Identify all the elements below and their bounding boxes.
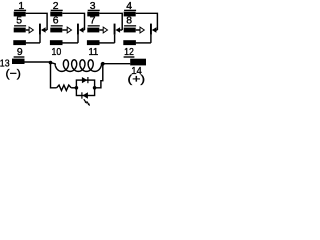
terminal 12 underline xyxy=(124,56,135,57)
contact bar pole 2 xyxy=(77,24,79,35)
NO contact open arrow pole 4 xyxy=(136,29,140,31)
terminal 12 pad xyxy=(123,40,136,45)
junction node B (coil right) xyxy=(101,62,105,66)
wire node B to 14 xyxy=(103,63,130,65)
wire NC 1 to contact xyxy=(26,13,47,30)
svg-text:(−): (−) xyxy=(6,68,22,80)
wire COM 9 xyxy=(26,42,40,44)
terminal 4 underline xyxy=(124,10,136,11)
LED emission arrow 2 xyxy=(87,102,89,105)
terminal 9 underline xyxy=(14,56,25,57)
svg-text:10: 10 xyxy=(52,47,62,58)
terminal 7 pad xyxy=(87,28,99,33)
wire 13 to coil node xyxy=(25,61,51,63)
wire bar to COM pole 3 xyxy=(114,35,116,43)
wire box to node B xyxy=(95,64,103,88)
wire bar to COM pole 1 xyxy=(39,35,41,43)
NO contact open arrow pole 2 xyxy=(62,29,67,31)
junction node D (box right) xyxy=(93,86,97,90)
terminal 11 pad xyxy=(87,40,100,45)
svg-text:11: 11 xyxy=(89,47,99,58)
NC contact arrow pole 1 xyxy=(44,29,47,31)
NO contact open arrow pole 1 xyxy=(26,29,29,31)
terminal 9 pad xyxy=(13,40,26,45)
terminal 8 underline xyxy=(124,25,136,26)
svg-text:7: 7 xyxy=(90,16,96,27)
NC contact arrow pole 3 xyxy=(119,29,122,31)
svg-text:8: 8 xyxy=(126,16,132,27)
terminal 1 underline xyxy=(14,10,26,11)
terminal 7 underline xyxy=(88,25,100,26)
terminal 2 pad xyxy=(50,12,62,17)
wire NC 4 to contact xyxy=(136,13,158,30)
LED emission arrow 1 xyxy=(84,99,86,102)
terminal 3 underline xyxy=(88,10,100,11)
contact bar pole 1 xyxy=(39,24,41,35)
wire NC 2 to contact xyxy=(62,13,84,30)
terminal 6 underline xyxy=(51,25,63,26)
contact bar pole 4 xyxy=(150,24,152,35)
wire COM 11 xyxy=(99,42,114,44)
NO contact open arrow pole 3 xyxy=(99,29,103,31)
resistor R (indicator series resistor) xyxy=(57,85,72,90)
svg-text:(+): (+) xyxy=(128,73,146,85)
terminal 3 pad xyxy=(87,12,99,17)
coil (relay coil loops) xyxy=(51,60,103,72)
wire COM 10 xyxy=(62,42,78,44)
terminal 13 pad xyxy=(12,59,25,64)
svg-text:5: 5 xyxy=(16,16,22,27)
NC contact arrow pole 4 xyxy=(155,29,157,31)
diode D1 (top, protection) xyxy=(82,77,87,83)
terminal 2 underline xyxy=(51,10,63,11)
wire node A down xyxy=(51,63,57,88)
diode box outline xyxy=(76,80,94,95)
terminal 5 pad xyxy=(14,28,26,33)
terminal 1 pad xyxy=(14,12,26,17)
terminal 8 pad xyxy=(124,28,136,33)
wire resistor to box xyxy=(71,87,76,89)
junction node A (coil left) xyxy=(49,61,53,65)
wire COM 12 xyxy=(136,42,151,44)
terminal 4 pad xyxy=(124,12,136,17)
svg-text:6: 6 xyxy=(53,16,59,27)
contact bar pole 3 xyxy=(114,24,116,35)
wire NC 3 to contact xyxy=(99,13,122,30)
terminal 10 pad xyxy=(50,40,63,45)
LED D2 (bottom, indicator) xyxy=(83,92,88,98)
junction node C (box left) xyxy=(75,86,79,90)
terminal 5 underline xyxy=(14,25,26,26)
terminal 14 pad xyxy=(130,59,146,66)
NC contact arrow pole 2 xyxy=(82,29,84,31)
wire bar to COM pole 2 xyxy=(77,35,79,43)
terminal 6 pad xyxy=(50,28,62,33)
wire bar to COM pole 4 xyxy=(150,35,152,43)
